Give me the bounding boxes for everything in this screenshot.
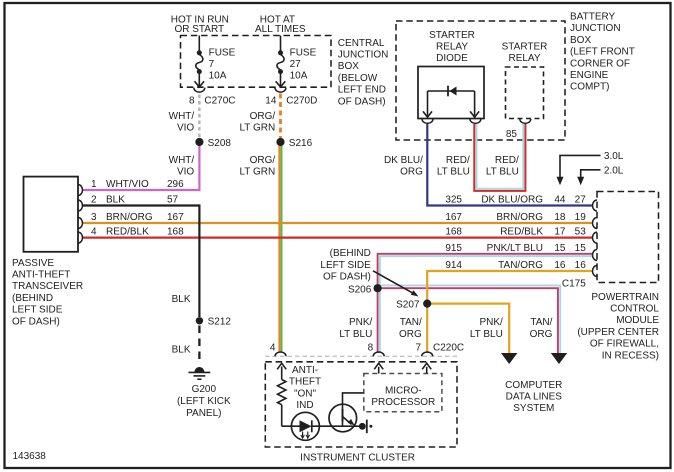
svg-text:167: 167 [167, 212, 184, 223]
svg-text:296: 296 [167, 179, 184, 190]
svg-text:CORNER OF: CORNER OF [570, 58, 630, 69]
svg-text:15: 15 [554, 243, 566, 254]
svg-text:DK BLU/: DK BLU/ [384, 155, 423, 166]
svg-text:LT BLU: LT BLU [339, 329, 372, 340]
svg-text:TAN/: TAN/ [530, 317, 552, 328]
svg-text:PNK/: PNK/ [479, 317, 503, 328]
svg-text:ORG/: ORG/ [250, 155, 276, 166]
svg-text:ANTI-: ANTI- [292, 365, 318, 376]
svg-text:LEFT END: LEFT END [338, 85, 386, 96]
svg-text:FUSE: FUSE [290, 48, 317, 59]
svg-text:JUNCTION: JUNCTION [338, 50, 389, 61]
svg-text:C270D: C270D [286, 95, 317, 106]
svg-text:RED/: RED/ [495, 155, 519, 166]
svg-text:1: 1 [91, 179, 97, 190]
svg-text:COMPUTER: COMPUTER [505, 380, 562, 391]
svg-text:BLK: BLK [172, 345, 191, 356]
svg-text:BRN/ORG: BRN/ORG [496, 212, 543, 223]
svg-text:DIODE: DIODE [436, 53, 468, 64]
svg-text:C220C: C220C [433, 343, 464, 354]
svg-text:OF DASH): OF DASH) [323, 272, 371, 283]
svg-text:THEFT: THEFT [289, 377, 321, 388]
svg-text:10A: 10A [209, 70, 227, 81]
svg-text:4: 4 [270, 343, 276, 354]
svg-text:ORG: ORG [400, 166, 423, 177]
svg-text:IND: IND [296, 400, 313, 411]
svg-text:LT BLU: LT BLU [486, 166, 519, 177]
svg-text:COMPT): COMPT) [570, 82, 609, 93]
svg-text:C175: C175 [562, 278, 586, 289]
svg-text:OF FIREWALL,: OF FIREWALL, [590, 339, 659, 350]
svg-text:(BEHIND: (BEHIND [330, 248, 371, 259]
svg-text:FUSE: FUSE [209, 48, 236, 59]
svg-text:C270C: C270C [204, 95, 235, 106]
svg-text:53: 53 [575, 226, 587, 237]
svg-text:TRANSCEIVER: TRANSCEIVER [12, 281, 83, 292]
svg-text:BOX: BOX [570, 35, 591, 46]
svg-text:S212: S212 [208, 317, 232, 328]
svg-text:PNK/: PNK/ [349, 317, 373, 328]
svg-text:(BEHIND: (BEHIND [12, 293, 53, 304]
svg-text:15: 15 [575, 243, 587, 254]
svg-text:325: 325 [445, 194, 462, 205]
svg-text:(LEFT KICK: (LEFT KICK [177, 396, 231, 407]
svg-text:LEFT SIDE: LEFT SIDE [12, 305, 63, 316]
svg-text:G200: G200 [192, 384, 217, 395]
svg-text:WHT/VIO: WHT/VIO [106, 179, 149, 190]
svg-text:LEFT SIDE: LEFT SIDE [320, 260, 371, 271]
svg-text:44: 44 [554, 194, 566, 205]
svg-text:BRN/ORG: BRN/ORG [106, 212, 153, 223]
svg-text:8: 8 [368, 343, 374, 354]
svg-text:STARTER: STARTER [429, 30, 475, 41]
svg-text:ANTI-THEFT: ANTI-THEFT [12, 270, 70, 281]
svg-text:(LEFT FRONT: (LEFT FRONT [570, 47, 635, 58]
svg-text:RED/BLK: RED/BLK [106, 226, 149, 237]
svg-text:PASSIVE: PASSIVE [12, 258, 54, 269]
svg-text:17: 17 [554, 226, 566, 237]
svg-text:RELAY: RELAY [436, 42, 468, 53]
svg-text:MODULE: MODULE [616, 315, 659, 326]
svg-text:RELAY: RELAY [508, 53, 540, 64]
svg-text:DATA LINES: DATA LINES [506, 392, 563, 403]
svg-text:IN RECESS): IN RECESS) [602, 350, 659, 361]
svg-text:27: 27 [575, 194, 587, 205]
svg-text:MICRO-: MICRO- [385, 385, 422, 396]
svg-text:85: 85 [506, 129, 518, 140]
svg-text:OF DASH): OF DASH) [12, 316, 60, 327]
svg-text:STARTER: STARTER [502, 42, 548, 53]
svg-text:CENTRAL: CENTRAL [338, 38, 385, 49]
svg-text:WHT/: WHT/ [169, 111, 195, 122]
svg-text:LT BLU: LT BLU [470, 329, 503, 340]
svg-text:LT BLU: LT BLU [437, 166, 470, 177]
svg-text:(BELOW: (BELOW [338, 73, 378, 84]
svg-text:"ON": "ON" [294, 388, 317, 399]
svg-text:57: 57 [167, 194, 179, 205]
svg-text:914: 914 [445, 260, 462, 271]
svg-text:S207: S207 [396, 299, 420, 310]
svg-text:10A: 10A [290, 70, 308, 81]
svg-text:ALL TIMES: ALL TIMES [255, 24, 306, 35]
svg-text:16: 16 [554, 260, 566, 271]
svg-text:143638: 143638 [13, 451, 47, 462]
svg-text:(UPPER CENTER: (UPPER CENTER [577, 327, 659, 338]
svg-text:16: 16 [575, 260, 587, 271]
svg-text:S216: S216 [289, 138, 313, 149]
svg-text:RED/: RED/ [446, 155, 470, 166]
svg-text:BLK: BLK [106, 194, 125, 205]
svg-text:167: 167 [445, 212, 462, 223]
svg-text:168: 168 [167, 226, 184, 237]
svg-text:ORG: ORG [530, 329, 553, 340]
svg-text:2.0L: 2.0L [604, 165, 624, 176]
svg-text:PROCESSOR: PROCESSOR [371, 397, 435, 408]
svg-text:8: 8 [189, 95, 195, 106]
svg-text:OR START: OR START [174, 24, 224, 35]
svg-text:3.0L: 3.0L [604, 151, 624, 162]
svg-text:7: 7 [209, 59, 215, 70]
svg-text:18: 18 [554, 212, 566, 223]
svg-text:VIO: VIO [177, 166, 194, 177]
svg-text:SYSTEM: SYSTEM [513, 403, 554, 414]
svg-text:915: 915 [445, 243, 462, 254]
svg-text:S206: S206 [348, 285, 372, 296]
svg-text:LT GRN: LT GRN [239, 122, 275, 133]
svg-text:PANEL): PANEL) [186, 408, 221, 419]
svg-text:ORG: ORG [399, 329, 422, 340]
svg-text:RED/BLK: RED/BLK [500, 226, 543, 237]
svg-text:TAN/: TAN/ [400, 317, 422, 328]
svg-text:DK BLU/ORG: DK BLU/ORG [481, 194, 543, 205]
svg-text:LT GRN: LT GRN [239, 166, 275, 177]
svg-text:CONTROL: CONTROL [610, 304, 659, 315]
svg-text:POWERTRAIN: POWERTRAIN [591, 292, 659, 303]
svg-text:3: 3 [91, 212, 97, 223]
svg-text:BOX: BOX [338, 61, 359, 72]
svg-text:2: 2 [91, 194, 97, 205]
svg-text:27: 27 [290, 59, 302, 70]
svg-text:INSTRUMENT CLUSTER: INSTRUMENT CLUSTER [300, 452, 415, 463]
svg-text:ENGINE: ENGINE [570, 70, 609, 81]
svg-text:19: 19 [575, 212, 587, 223]
svg-text:WHT/: WHT/ [169, 155, 195, 166]
svg-text:S208: S208 [208, 138, 232, 149]
svg-text:BLK: BLK [172, 294, 191, 305]
svg-text:JUNCTION: JUNCTION [570, 23, 621, 34]
svg-text:VIO: VIO [177, 122, 194, 133]
svg-text:4: 4 [91, 226, 97, 237]
svg-text:ORG/: ORG/ [250, 111, 276, 122]
svg-text:OF DASH): OF DASH) [338, 96, 386, 107]
svg-text:TAN/ORG: TAN/ORG [498, 260, 543, 271]
svg-text:PNK/LT BLU: PNK/LT BLU [487, 243, 543, 254]
svg-text:168: 168 [445, 226, 462, 237]
svg-text:14: 14 [265, 95, 277, 106]
svg-text:7: 7 [415, 343, 421, 354]
svg-text:BATTERY: BATTERY [570, 12, 616, 23]
